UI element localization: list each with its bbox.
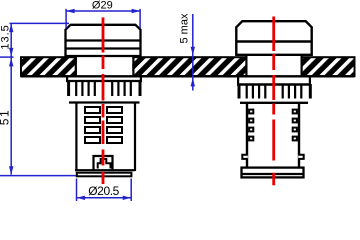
svg-text:Ø29: Ø29 bbox=[92, 0, 113, 12]
svg-text:51: 51 bbox=[0, 109, 12, 125]
svg-text:5 max: 5 max bbox=[178, 13, 190, 43]
svg-text:13.5: 13.5 bbox=[0, 24, 11, 49]
svg-text:Ø20.5: Ø20.5 bbox=[88, 184, 119, 198]
